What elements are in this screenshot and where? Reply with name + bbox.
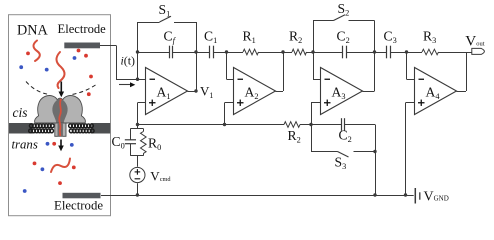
capacitor C0 <box>130 129 132 140</box>
wire: A3 + input stub and drop <box>311 102 321 104</box>
resistor R1 (A2 feedback) <box>227 52 244 54</box>
capacitor C2 (A3 feedback) <box>313 52 343 54</box>
wire from bottom electrode / bottom rail <box>101 195 414 197</box>
wire: A1 + input stub and drop <box>138 102 146 104</box>
top electrode bar <box>64 43 100 49</box>
node V1 vertical (S1/Cf right side) <box>196 22 198 91</box>
wire: A3 output up to feedback node <box>373 50 376 53</box>
svg-text:trans: trans <box>12 138 38 152</box>
node: A3 + network <box>309 123 312 126</box>
dashed field line right <box>72 85 96 95</box>
wire: C0/R0 branch <box>137 125 139 129</box>
svg-text:cis: cis <box>13 105 28 120</box>
op-amp A1 <box>146 68 188 115</box>
capacitor C3 <box>375 52 387 54</box>
node: A3 inverting input <box>311 50 314 53</box>
wire: A2 output up to feedback <box>281 50 284 53</box>
switch S2 <box>313 21 315 53</box>
wire: compensation network to ground rail <box>375 125 377 196</box>
switch S3 <box>311 125 313 152</box>
bottom electrode bar <box>63 193 101 199</box>
wire: A4 output up to Vout <box>457 91 467 93</box>
wire: A1 output <box>188 91 197 93</box>
node: A4 inverting input <box>405 50 408 53</box>
lipid coils left <box>29 124 33 128</box>
node: A2 inverting input <box>225 50 228 53</box>
svg-text:i(t): i(t) <box>121 54 135 68</box>
node: rail tee above C0/R0 <box>136 123 139 126</box>
DNA strand 2 (cis) <box>56 52 64 88</box>
current direction arrow <box>119 84 132 86</box>
nanopore stem <box>55 123 66 136</box>
resistor R2 (series) <box>283 52 292 54</box>
membrane right bar <box>91 123 110 134</box>
wire: A4 + input stub and drop to ground rail <box>406 102 415 104</box>
capacitor Cf <box>138 52 170 54</box>
translocating DNA strand (red, through pore) <box>59 100 61 136</box>
dashed field line left <box>26 82 50 95</box>
capacitor C1 <box>196 52 210 54</box>
svg-text:Electrode: Electrode <box>58 22 107 36</box>
resistor R0 <box>141 132 147 154</box>
arrow into pore (top) <box>60 82 62 93</box>
wire: A1 - input stub <box>138 79 146 81</box>
wire from top electrode to headstage input <box>100 45 116 47</box>
nanopore protein cap <box>35 96 86 123</box>
Vout port <box>466 52 472 54</box>
node: A1 inverting input vertical <box>137 22 139 79</box>
ions (trans chamber) <box>46 142 50 146</box>
op-amp A2 <box>234 68 276 115</box>
op-amp A3 <box>321 68 363 115</box>
DNA strand (trans) <box>51 159 70 173</box>
arrow below pore <box>60 140 62 147</box>
wire: A2 + input stub and drop <box>225 102 234 104</box>
illustration box frame <box>9 15 111 216</box>
op-amp A4 <box>415 68 457 115</box>
nanopore vestibule (dark) <box>52 99 67 123</box>
svg-text:Electrode: Electrode <box>54 199 103 213</box>
VGND electrode symbol <box>414 188 416 204</box>
svg-text:DNA: DNA <box>17 23 48 39</box>
DNA strand 1 (cis) <box>34 41 40 62</box>
source Vcmd <box>130 167 145 182</box>
switch S1 <box>138 22 160 24</box>
wire: non-inverting rail <box>138 124 285 126</box>
resistor R2 (compensation) <box>284 122 300 128</box>
ions (cis chamber) <box>26 52 30 56</box>
membrane left bar <box>9 123 33 134</box>
capacitor C2 (compensation) <box>311 124 341 126</box>
resistor R3 (A4 feedback) <box>407 52 423 54</box>
lipid coils right <box>69 124 73 128</box>
